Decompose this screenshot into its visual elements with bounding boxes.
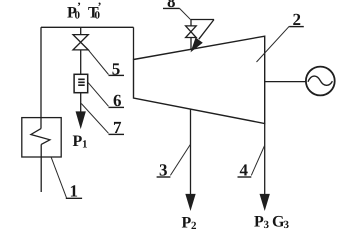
svg-text:3: 3 — [264, 219, 270, 231]
underline label 3 — [157, 176, 171, 178]
wire: relief lower stub to turbine — [190, 38, 192, 51]
wire: orifice to arrow — [80, 93, 82, 113]
wire: turbine inlet drop — [133, 27, 135, 59]
underline label 2 — [289, 26, 304, 28]
wire: relief upper stub — [190, 20, 192, 26]
boiler heating zigzag — [31, 128, 50, 144]
relief discharge diagonal — [199, 20, 214, 40]
pointer to label 8 — [180, 8, 191, 19]
pointer to label 7 — [81, 104, 108, 134]
svg-text:1: 1 — [70, 182, 79, 201]
generator G — [306, 67, 335, 96]
pointer to label 4 — [251, 146, 264, 176]
svg-text:4: 4 — [240, 160, 249, 179]
underline label 4 — [238, 176, 252, 178]
svg-text:7: 7 — [113, 118, 122, 137]
turbine T2 — [134, 36, 265, 123]
svg-text:0: 0 — [95, 10, 101, 22]
wire: boiler riser (left pipe through boiler) — [40, 27, 42, 192]
svg-text:2: 2 — [191, 220, 197, 232]
label P0' T0' — [67, 0, 102, 22]
svg-text:8: 8 — [167, 0, 176, 11]
underline label 5 — [109, 74, 125, 76]
generator sine wave — [308, 76, 332, 85]
svg-text:P: P — [254, 214, 264, 231]
relief discharge arrowhead — [192, 39, 202, 51]
underline label 1 — [66, 197, 82, 199]
svg-text:2: 2 — [293, 10, 302, 29]
wire: main steam header — [41, 26, 134, 28]
label P1 — [73, 133, 88, 151]
wire: valve branch stub — [80, 27, 82, 34]
label P2 — [182, 215, 198, 233]
underline label 8 — [163, 7, 180, 9]
relief header line (component 8) — [191, 19, 214, 21]
arrow A7 (flow arrow P1) — [76, 112, 85, 127]
arrow P2 — [186, 195, 195, 209]
svg-text:3: 3 — [284, 219, 290, 231]
svg-text:P: P — [182, 215, 192, 232]
underline label 7 — [109, 133, 125, 135]
wire: generator shaft — [265, 81, 306, 83]
valve V5 (stop valve) — [73, 35, 88, 50]
boiler B1 — [22, 118, 61, 157]
svg-text:5: 5 — [112, 59, 121, 78]
wire: valve to orifice box — [80, 50, 82, 74]
pointer to label 1 — [51, 157, 67, 198]
wire: exhaust line P3 — [264, 124, 266, 197]
valve V8 (relief valve) — [186, 26, 197, 38]
svg-text:P: P — [73, 133, 83, 150]
svg-text:6: 6 — [113, 91, 122, 110]
underline label 6 — [109, 106, 125, 108]
pointer to label 2 — [257, 26, 290, 62]
svg-text:1: 1 — [82, 139, 88, 151]
pointer to label 5 — [89, 50, 109, 74]
wire: extraction line P2 — [190, 109, 192, 196]
pointer to label 6 — [88, 82, 109, 106]
orifice box U6 — [74, 74, 88, 92]
arrow P3 — [260, 195, 269, 209]
label P3 G3 — [254, 214, 290, 232]
svg-text:0: 0 — [75, 10, 81, 22]
svg-text:3: 3 — [159, 160, 168, 179]
pointer to label 3 — [170, 145, 190, 176]
orifice bars — [78, 79, 85, 85]
